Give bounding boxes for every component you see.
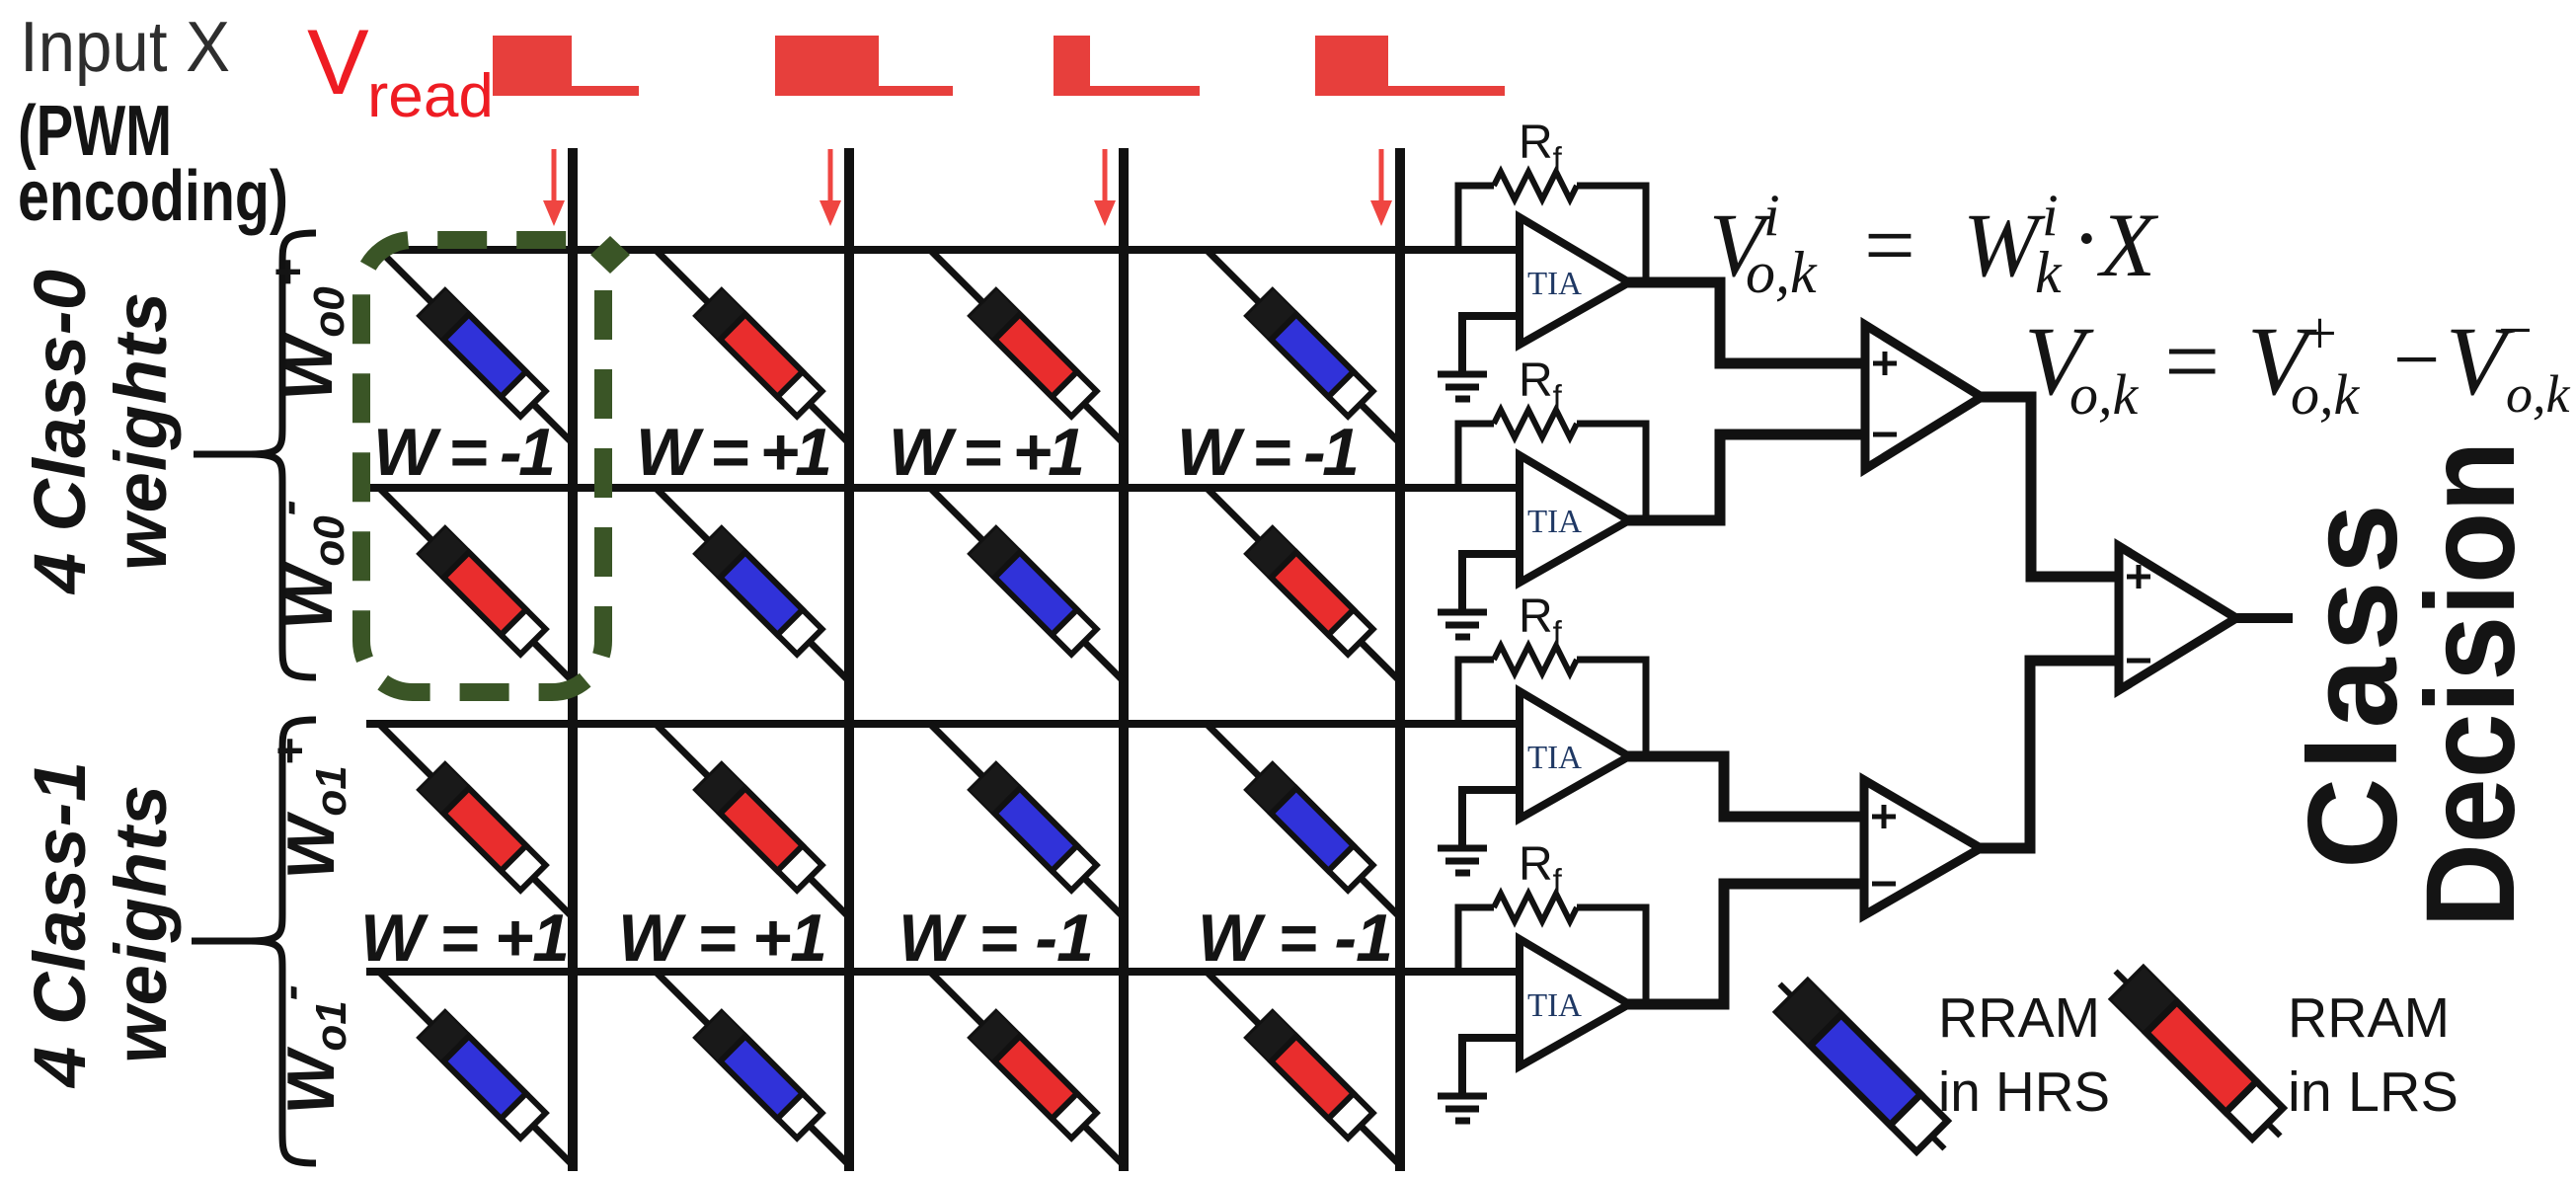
- svg-text:Input X: Input X: [20, 8, 230, 87]
- RRAM device row 3 col 1 (LRS): [420, 764, 547, 892]
- svg-text:k: k: [2035, 240, 2063, 305]
- svg-text:−: −: [2393, 314, 2440, 406]
- svg-text:TIA: TIA: [1527, 987, 1582, 1024]
- wire row line Wo0-: [366, 484, 1523, 492]
- Vread PWM pulse waveform column 2: [775, 36, 953, 96]
- input arrow column 2: [820, 149, 841, 226]
- wire cell diagonal row 3 col 3: [930, 724, 1124, 917]
- Vread PWM pulse waveform column 3: [1054, 36, 1200, 96]
- RRAM device row 1 col 2 (LRS): [696, 290, 823, 418]
- resistor Rf3 feedback loop wire: [1458, 660, 1646, 756]
- svg-text:TIA: TIA: [1527, 740, 1582, 776]
- resistor Rf2 zigzag: [1494, 410, 1577, 437]
- svg-text:TIA: TIA: [1527, 504, 1582, 540]
- net label Wo0-: [263, 500, 353, 630]
- resistor Rf4 feedback loop wire: [1458, 907, 1646, 1004]
- svg-text:4 Class-0: 4 Class-0: [19, 270, 101, 595]
- RRAM device row 3 col 2 (LRS): [696, 764, 823, 892]
- svg-text:o,k: o,k: [2506, 364, 2571, 424]
- svg-text:W = -1: W = -1: [373, 415, 556, 490]
- svg-text:Decision: Decision: [2400, 441, 2541, 928]
- wire cell diagonal row 4 col 3: [930, 972, 1124, 1165]
- svg-text:weights: weights: [100, 292, 182, 571]
- svg-text:in LRS: in LRS: [2288, 1060, 2459, 1124]
- wire TIA3 ground input: [1462, 790, 1522, 848]
- selection box dashed (first weight pair): [361, 240, 603, 692]
- svg-text:in HRS: in HRS: [1938, 1060, 2110, 1124]
- legend RRAM in LRS device: [2099, 955, 2296, 1151]
- net label Wo1+: [265, 738, 355, 880]
- RRAM device row 3 col 4 (HRS): [1247, 764, 1374, 892]
- svg-text:W = -1: W = -1: [1177, 415, 1360, 490]
- wire cell diagonal row 1 col 3: [930, 250, 1124, 443]
- svg-text:RRAM: RRAM: [1938, 986, 2100, 1050]
- op-amp TIA4 triangle: [1520, 939, 1629, 1066]
- svg-text:W = +1: W = +1: [360, 901, 570, 976]
- svg-text:=: =: [1864, 195, 1915, 295]
- wire cell diagonal row 2 col 1: [379, 488, 573, 681]
- pin U7 comparator minus input marker: [2127, 659, 2150, 664]
- node Input X caption: [18, 8, 288, 236]
- RRAM device row 1 col 3 (LRS): [971, 290, 1098, 418]
- op-amp TIA2 triangle: [1520, 455, 1629, 583]
- wire cell diagonal row 1 col 4: [1207, 250, 1400, 443]
- wire cell diagonal row 3 col 4: [1207, 724, 1400, 917]
- wire row line Wo1-: [366, 968, 1523, 976]
- RRAM device row 1 col 4 (HRS): [1247, 290, 1374, 418]
- svg-text:4 Class-1: 4 Class-1: [19, 761, 101, 1089]
- RRAM device row 4 col 1 (HRS): [420, 1012, 547, 1139]
- node label Class Decision: [2283, 441, 2541, 928]
- RRAM device row 4 col 4 (LRS): [1247, 1012, 1374, 1139]
- wire A2 output to comparator minus: [1979, 661, 2119, 848]
- legend label RRAM in LRS: [2288, 986, 2459, 1124]
- svg-text:o,k: o,k: [2291, 362, 2361, 427]
- svg-text:W = +1: W = +1: [636, 415, 832, 490]
- wire column line C4: [1395, 148, 1405, 1171]
- brace class-0 weight rows: [194, 233, 316, 677]
- net label Wo0+: [263, 259, 353, 401]
- wire row line Wo1+: [366, 720, 1523, 728]
- ground GND3: [1438, 848, 1487, 873]
- pin A1 plus input marker: [1873, 352, 1897, 375]
- equation Vok_i = Wk_i . X: [1709, 183, 2159, 305]
- RRAM device row 3 col 3 (HRS): [971, 764, 1098, 892]
- svg-text:i: i: [1763, 183, 1780, 248]
- wire cell diagonal row 1 col 1: [379, 250, 573, 443]
- wire cell diagonal row 2 col 3: [930, 488, 1124, 681]
- resistor Rf1 feedback loop wire: [1458, 186, 1646, 282]
- RRAM device row 1 col 1 (HRS): [420, 290, 547, 418]
- svg-text:RRAM: RRAM: [2288, 986, 2450, 1050]
- svg-text:W = +1: W = +1: [889, 415, 1085, 490]
- wire TIA1 output to A1 plus: [1627, 282, 1865, 363]
- op-amp TIA1 triangle: [1520, 217, 1629, 345]
- wire column line C1: [568, 148, 578, 1171]
- wire A1 output to comparator plus: [1980, 397, 2119, 577]
- wire cell diagonal row 4 col 4: [1207, 972, 1400, 1165]
- wire column line C3: [1119, 148, 1129, 1171]
- input arrow column 3: [1094, 149, 1116, 226]
- RRAM device row 2 col 4 (LRS): [1247, 528, 1374, 656]
- svg-text:X: X: [2096, 195, 2159, 295]
- input arrow column 4: [1370, 149, 1392, 226]
- node label 4 Class-1 weights: [19, 761, 182, 1089]
- resistor Rf2 feedback loop wire: [1458, 424, 1646, 520]
- svg-text:encoding): encoding): [18, 157, 288, 236]
- op-amp A2 triangle: [1864, 780, 1981, 915]
- svg-text:+: +: [2303, 300, 2337, 367]
- svg-text:W = +1: W = +1: [618, 901, 827, 976]
- wire TIA2 ground input: [1462, 554, 1522, 612]
- RRAM device row 2 col 2 (HRS): [696, 528, 823, 656]
- wire cell diagonal row 2 col 4: [1207, 488, 1400, 681]
- svg-text:o,k: o,k: [1746, 240, 1818, 305]
- ground GND4: [1438, 1096, 1487, 1121]
- svg-text:W = -1: W = -1: [898, 901, 1094, 976]
- node label 4 Class-0 weights: [19, 270, 182, 595]
- resistor Rf1 zigzag: [1494, 172, 1577, 199]
- wire TIA4 output to A2 minus: [1627, 884, 1864, 1004]
- pin A2 plus input marker: [1872, 805, 1896, 828]
- pin A1 minus input marker: [1873, 432, 1897, 437]
- wire cell diagonal row 2 col 2: [656, 488, 849, 681]
- RRAM device row 4 col 2 (HRS): [696, 1012, 823, 1139]
- resistor Rf4 zigzag: [1494, 894, 1577, 921]
- Vread PWM pulse waveform column 1: [493, 36, 639, 96]
- wire row line Wo0+: [379, 246, 1523, 254]
- svg-text:TIA: TIA: [1527, 266, 1582, 302]
- net label Wo1-: [265, 984, 355, 1115]
- wire cell diagonal row 1 col 2: [656, 250, 849, 443]
- wire TIA3 output to A2 plus: [1627, 756, 1864, 817]
- ground GND1: [1438, 374, 1487, 399]
- op-amp U7 comparator triangle: [2119, 546, 2236, 690]
- wire cell diagonal row 4 col 1: [379, 972, 573, 1165]
- ground GND2: [1438, 612, 1487, 637]
- svg-text:read: read: [367, 62, 494, 130]
- legend label RRAM in HRS: [1938, 986, 2110, 1124]
- node Vread label: [307, 10, 494, 130]
- legend RRAM in HRS device: [1763, 968, 1960, 1164]
- pin A2 minus input marker: [1872, 882, 1896, 887]
- selection box corner arrowhead: [590, 236, 630, 274]
- resistor Rf3 zigzag: [1494, 646, 1577, 673]
- equation Vok = Vok+ - Vok-: [2024, 297, 2571, 427]
- RRAM device row 2 col 1 (LRS): [420, 528, 547, 656]
- RRAM device row 2 col 3 (HRS): [971, 528, 1098, 656]
- input arrow column 1: [543, 149, 565, 226]
- wire cell diagonal row 4 col 2: [656, 972, 849, 1165]
- svg-text:i: i: [2042, 183, 2059, 248]
- pin U7 comparator plus input marker: [2127, 565, 2150, 589]
- wire TIA4 ground input: [1462, 1038, 1522, 1096]
- op-amp TIA3 triangle: [1520, 691, 1629, 819]
- svg-text:weights: weights: [100, 785, 182, 1063]
- brace class-1 weight rows: [192, 720, 316, 1163]
- Vread PWM pulse waveform column 4: [1315, 36, 1505, 96]
- wire cell diagonal row 3 col 1: [379, 724, 573, 917]
- svg-text:V: V: [307, 10, 369, 114]
- svg-text:o,k: o,k: [2069, 362, 2140, 427]
- op-amp A1 triangle: [1865, 325, 1982, 469]
- svg-text:−: −: [2498, 297, 2533, 364]
- wire TIA2 output to A1 minus: [1627, 434, 1865, 520]
- svg-text:·: ·: [2071, 188, 2102, 288]
- wire cell diagonal row 3 col 2: [656, 724, 849, 917]
- wire comparator output: [2234, 613, 2293, 623]
- svg-text:W = -1: W = -1: [1198, 901, 1393, 976]
- svg-text:W: W: [1963, 195, 2046, 295]
- wire column line C2: [844, 148, 854, 1171]
- RRAM device row 4 col 3 (LRS): [971, 1012, 1098, 1139]
- svg-text:=: =: [2164, 306, 2220, 416]
- wire TIA1 ground input: [1462, 316, 1522, 374]
